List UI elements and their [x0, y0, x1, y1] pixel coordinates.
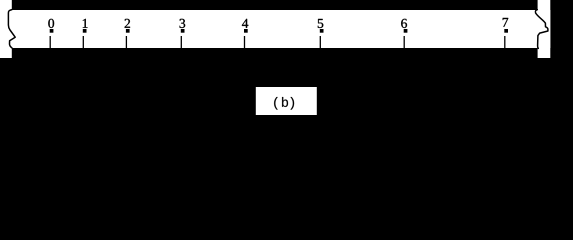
dot 2 — [126, 29, 130, 33]
left brace squiggle — [8, 10, 15, 48]
left white margin column — [0, 0, 12, 58]
tick 1 — [83, 36, 84, 48]
dot 7 — [504, 29, 508, 33]
label (b) text — [274, 97, 294, 110]
dot 1 — [83, 29, 87, 33]
number 3 — [180, 19, 186, 28]
tick 6 — [404, 36, 405, 48]
dot 3 — [181, 29, 185, 33]
number 7 — [503, 18, 508, 27]
label (b) white box — [256, 87, 317, 115]
number 6 — [401, 19, 407, 28]
tick 0 — [50, 36, 51, 48]
tick 3 — [181, 36, 182, 48]
number 0 — [48, 19, 54, 28]
tick 4 — [244, 36, 245, 48]
number 5 — [318, 19, 323, 28]
dot 5 — [320, 29, 324, 33]
number 1 — [83, 19, 88, 28]
right brace squiggle — [535, 10, 548, 49]
number 4 — [242, 19, 248, 28]
tick 2 — [126, 36, 127, 48]
dot 6 — [404, 29, 408, 33]
right white gap column — [538, 0, 551, 58]
tick 5 — [320, 36, 321, 48]
number 2 — [125, 19, 130, 28]
dot 0 — [50, 29, 54, 33]
main white band (number line strip) — [11, 10, 550, 48]
tick 7 — [504, 36, 505, 48]
dot 4 — [244, 29, 248, 33]
